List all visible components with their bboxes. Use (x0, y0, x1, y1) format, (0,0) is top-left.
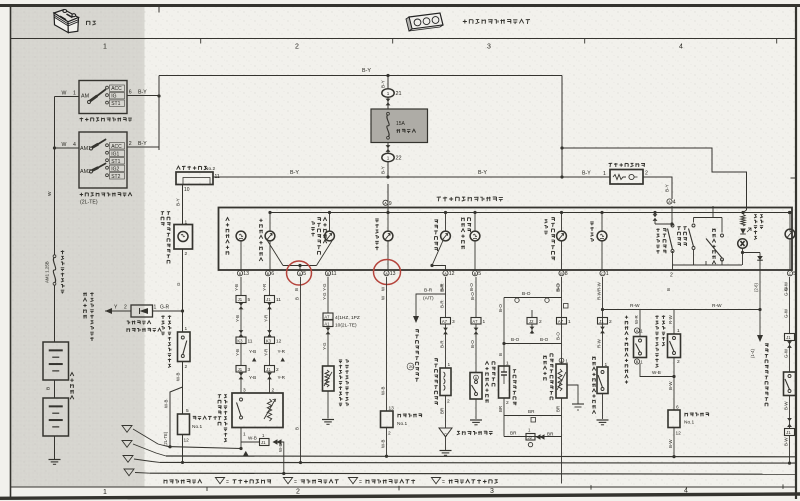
svg-text:B: B (294, 288, 299, 291)
svg-text:B-O: B-O (556, 332, 561, 340)
svg-text:BR: BR (440, 408, 445, 414)
svg-text:A: A (444, 272, 447, 276)
svg-text:ST1: ST1 (111, 101, 120, 107)
svg-text:10(2L-TE): 10(2L-TE) (335, 323, 357, 329)
svg-text:2: 2 (129, 141, 132, 147)
svg-text:1: 1 (103, 489, 107, 496)
svg-text:A7: A7 (442, 319, 448, 324)
svg-text:B-O: B-O (522, 291, 531, 297)
svg-text:ACC: ACC (111, 144, 122, 150)
svg-text:A7: A7 (324, 314, 330, 319)
svg-text:AM: AM (81, 94, 90, 100)
svg-text:2: 2 (295, 44, 299, 51)
svg-text:A: A (668, 200, 671, 204)
svg-text:13: 13 (243, 271, 249, 277)
svg-text:B: B (295, 297, 300, 300)
svg-text:Y-G: Y-G (322, 283, 327, 291)
svg-text:R-W: R-W (630, 303, 640, 309)
svg-text:1: 1 (103, 44, 107, 51)
svg-text:2: 2 (506, 400, 509, 406)
svg-text:Y-B: Y-B (235, 349, 240, 356)
svg-text:W: W (62, 142, 67, 148)
svg-text:G-R: G-R (160, 305, 170, 311)
svg-text:(2-6): (2-6) (754, 283, 759, 292)
svg-text:4: 4 (673, 200, 676, 206)
svg-text:2: 2 (645, 171, 648, 177)
svg-text:12: 12 (449, 271, 455, 277)
svg-text:2: 2 (276, 367, 279, 373)
svg-text:Y-R: Y-R (262, 284, 267, 291)
svg-text:1: 1 (154, 305, 157, 311)
svg-text:Y-G: Y-G (322, 292, 327, 300)
svg-text:ST1: ST1 (111, 159, 120, 165)
svg-text:R-W: R-W (597, 290, 602, 300)
svg-text:B-R: B-R (440, 300, 445, 308)
svg-text:ACC: ACC (111, 86, 122, 92)
svg-text:IG1: IG1 (111, 151, 119, 157)
svg-text:B-Y: B-Y (582, 171, 591, 177)
svg-text:12: 12 (676, 431, 682, 437)
svg-text:22: 22 (396, 156, 402, 162)
svg-text:G-W: G-W (784, 286, 789, 296)
svg-text:B-R: B-R (424, 288, 433, 294)
svg-text:A7: A7 (558, 319, 564, 324)
svg-text:G: G (444, 433, 448, 438)
svg-text:G: G (176, 282, 181, 286)
svg-text:K3: K3 (237, 338, 243, 343)
svg-text:No.1: No.1 (192, 424, 202, 430)
svg-text:J1: J1 (786, 430, 791, 435)
svg-text:B-Y: B-Y (176, 198, 181, 206)
svg-text:J1: J1 (266, 297, 271, 302)
svg-text:Y-R: Y-R (264, 349, 269, 356)
svg-text:W: W (62, 91, 67, 97)
svg-text:B-W: B-W (668, 439, 673, 448)
svg-text:B-Y: B-Y (362, 68, 371, 74)
svg-text:W-B: W-B (248, 436, 257, 441)
svg-text:=: = (442, 480, 445, 486)
svg-text:2: 2 (447, 399, 450, 405)
svg-text:B-W: B-W (784, 401, 789, 410)
svg-text:B-Y: B-Y (290, 170, 299, 176)
svg-text:W-B: W-B (381, 439, 386, 448)
svg-text:B-W: B-W (668, 381, 673, 390)
svg-text:13: 13 (390, 271, 396, 277)
svg-text:1: 1 (73, 91, 76, 97)
svg-text:11: 11 (331, 271, 336, 277)
svg-text:Y-G: Y-G (322, 342, 327, 350)
svg-text:10: 10 (184, 187, 190, 193)
svg-text:12: 12 (184, 438, 190, 444)
svg-text:(2L-TE): (2L-TE) (80, 200, 98, 206)
svg-text:J1: J1 (786, 335, 791, 340)
svg-text:B-Y: B-Y (138, 141, 147, 147)
svg-text:C: C (789, 272, 792, 276)
svg-text:1: 1 (606, 271, 609, 277)
svg-text:No.1: No.1 (397, 421, 407, 427)
svg-text:2: 2 (609, 319, 612, 325)
svg-text:=: = (359, 480, 362, 486)
svg-text:W-B: W-B (164, 399, 169, 408)
svg-text:R-W: R-W (668, 314, 673, 324)
svg-text:R-W: R-W (597, 281, 602, 291)
svg-text:Y-R: Y-R (278, 349, 286, 354)
svg-text:2: 2 (296, 489, 300, 496)
svg-text:No.2: No.2 (205, 166, 215, 172)
svg-text:R-W: R-W (597, 338, 602, 348)
svg-text:B-W: B-W (784, 437, 789, 446)
svg-text:A: A (636, 329, 639, 333)
svg-text:21: 21 (396, 91, 402, 97)
svg-text:3: 3 (452, 319, 455, 325)
svg-text:Y-R: Y-R (264, 315, 269, 322)
svg-text:2: 2 (124, 305, 127, 311)
svg-text:W-R: W-R (634, 315, 639, 324)
svg-text:B-O: B-O (470, 340, 475, 348)
svg-text:G-W: G-W (784, 308, 789, 318)
svg-text:IG: IG (111, 94, 116, 100)
svg-text:IG2: IG2 (111, 166, 119, 172)
svg-text:B: B (560, 272, 563, 276)
svg-text:A7: A7 (472, 319, 478, 324)
svg-text:5: 5 (186, 408, 189, 414)
svg-text:W-B: W-B (176, 372, 181, 381)
svg-text:J2: J2 (529, 319, 534, 324)
svg-text:5: 5 (478, 271, 481, 277)
svg-text:5: 5 (248, 297, 251, 303)
svg-text:B-Y: B-Y (381, 80, 386, 88)
svg-text:1: 1 (483, 319, 486, 325)
svg-text:B-R: B-R (440, 284, 445, 292)
svg-text:1: 1 (568, 319, 571, 325)
svg-text:B-O: B-O (470, 292, 475, 300)
svg-text:BR: BR (528, 409, 535, 414)
svg-text:W-B: W-B (652, 370, 661, 375)
svg-text:BR: BR (547, 432, 554, 437)
svg-text:4(1HZ, 1PZ: 4(1HZ, 1PZ (335, 315, 360, 321)
svg-text:B: B (267, 272, 270, 276)
svg-text:2: 2 (670, 273, 673, 279)
svg-text:(1-4): (1-4) (750, 349, 755, 358)
svg-text:3: 3 (490, 488, 494, 495)
svg-text:B: B (666, 288, 671, 291)
svg-text:ST2: ST2 (111, 174, 120, 180)
svg-text:2: 2 (185, 251, 188, 257)
svg-text:Y-B: Y-B (249, 349, 256, 354)
svg-text:A: A (299, 272, 302, 276)
svg-text:B-O: B-O (469, 283, 474, 291)
svg-text:J1: J1 (266, 367, 271, 372)
svg-text:Y-B: Y-B (249, 375, 256, 380)
svg-text:1: 1 (387, 155, 390, 160)
svg-text:B-O: B-O (511, 337, 520, 342)
svg-text:A: A (385, 272, 388, 276)
svg-text:6: 6 (271, 271, 274, 277)
svg-text:B-O: B-O (498, 304, 503, 312)
svg-text:W-B: W-B (381, 386, 386, 395)
svg-text:C: C (601, 272, 604, 276)
svg-text:8: 8 (565, 271, 568, 277)
svg-text:B: B (474, 272, 477, 276)
svg-text:9: 9 (389, 201, 392, 207)
svg-text:BR: BR (498, 406, 503, 412)
svg-text:2: 2 (185, 364, 188, 370)
svg-text:J2: J2 (528, 435, 533, 440)
svg-text:B-Y: B-Y (478, 170, 487, 176)
svg-text:B: B (46, 387, 52, 390)
svg-text:1: 1 (243, 432, 246, 438)
svg-text:B-R: B-R (440, 340, 445, 348)
svg-text:1: 1 (387, 91, 390, 96)
svg-text:B: B (498, 353, 503, 356)
svg-text:4: 4 (73, 142, 76, 148)
svg-text:Y-B: Y-B (235, 315, 240, 322)
svg-text:B: B (636, 360, 639, 364)
svg-text:B-Y: B-Y (665, 184, 670, 192)
svg-text:=: = (226, 480, 229, 486)
svg-text:AM1 1.25B: AM1 1.25B (45, 261, 50, 283)
svg-text:B-O: B-O (556, 284, 561, 292)
svg-text:2: 2 (539, 319, 542, 325)
svg-text:3: 3 (487, 44, 491, 51)
svg-text:B-Y: B-Y (381, 166, 386, 174)
svg-text:B-O: B-O (540, 337, 549, 342)
svg-text:11: 11 (248, 339, 253, 345)
svg-text:1: 1 (677, 328, 680, 334)
svg-text:(A/T): (A/T) (423, 296, 434, 302)
svg-text:G-W: G-W (784, 348, 789, 358)
svg-text:Y-R: Y-R (278, 375, 286, 380)
svg-text:J1: J1 (599, 319, 604, 324)
svg-text:A: A (384, 202, 387, 206)
svg-text:15A: 15A (396, 121, 406, 127)
svg-text:12: 12 (276, 339, 282, 345)
svg-text:B: B (327, 272, 330, 276)
svg-text:K3: K3 (266, 338, 272, 343)
svg-text:B: B (295, 427, 300, 430)
svg-text:2: 2 (388, 431, 391, 437)
svg-text:6: 6 (129, 90, 132, 96)
svg-text:1: 1 (185, 326, 188, 332)
svg-text:A1: A1 (324, 321, 330, 326)
svg-text:3: 3 (248, 367, 251, 373)
svg-text:2: 2 (677, 359, 680, 365)
svg-text:=: = (294, 480, 297, 486)
svg-text:(2L-TE): (2L-TE) (163, 431, 168, 446)
svg-text:11: 11 (276, 297, 281, 303)
svg-text:BR: BR (510, 431, 517, 436)
svg-text:W: W (47, 191, 53, 196)
svg-text:5: 5 (303, 271, 306, 277)
svg-text:1: 1 (448, 362, 451, 368)
svg-text:Y-B: Y-B (234, 284, 239, 291)
svg-text:11: 11 (215, 174, 220, 180)
svg-text:W-B: W-B (278, 443, 283, 452)
svg-text:R-W: R-W (712, 303, 722, 309)
svg-text:1: 1 (603, 171, 606, 177)
svg-text:B: B (239, 272, 242, 276)
svg-text:No.1: No.1 (684, 420, 694, 426)
svg-text:B-Y: B-Y (138, 90, 147, 96)
svg-text:J1: J1 (261, 440, 266, 445)
svg-text:J1: J1 (238, 297, 243, 302)
svg-text:4: 4 (679, 44, 683, 51)
svg-text:5: 5 (793, 271, 796, 277)
svg-text:BR: BR (556, 406, 561, 412)
svg-text:4: 4 (684, 487, 688, 494)
svg-text:J1: J1 (238, 367, 243, 372)
